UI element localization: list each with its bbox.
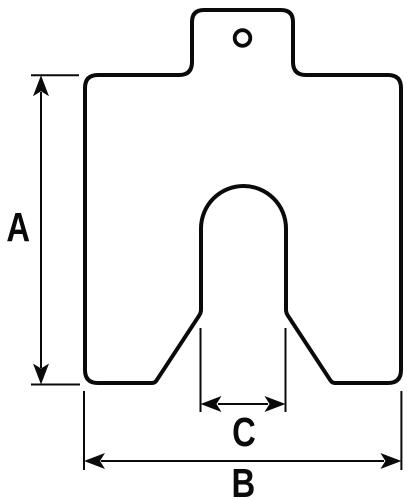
- dimension B: right extension line: [400, 391, 402, 470]
- dimension C: left extension line: [200, 328, 202, 412]
- svg-text:C: C: [232, 408, 256, 454]
- dimension A: vertical arrow line: [40, 92, 42, 368]
- dimension C: right arrowhead: [265, 396, 286, 412]
- dimension C: horizontal arrow line: [218, 403, 268, 405]
- dimension A: top extension line: [31, 74, 79, 76]
- shim body outline with top tab and bottom slot: [85, 10, 401, 383]
- dimension B: horizontal arrow line: [101, 460, 384, 462]
- svg-text:A: A: [6, 204, 30, 250]
- dimension C: right extension line: [285, 328, 287, 412]
- dimension A: upper arrowhead: [33, 75, 49, 96]
- hang hole in tab: [235, 30, 251, 46]
- dimension B: left arrowhead: [84, 453, 105, 469]
- dimension B: left extension line: [83, 391, 85, 470]
- dimension C: left arrowhead: [201, 396, 222, 412]
- dimension A: lower arrowhead: [33, 364, 49, 385]
- dimension B: right arrowhead: [380, 453, 401, 469]
- dimension A: bottom extension line: [31, 384, 80, 386]
- svg-text:B: B: [232, 459, 256, 499]
